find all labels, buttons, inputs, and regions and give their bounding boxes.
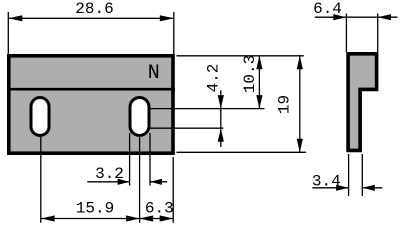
dimension 28.6 arrow right [160,15,174,21]
dimension 19 arrow top [297,56,303,70]
svg-text:19: 19 [276,95,294,114]
side view body profile [348,54,377,151]
dimension 6.4 arrow right [378,14,391,20]
dimension 19 text [276,95,294,114]
slot2 right edge extension [149,133,151,186]
dimension 19 line [299,56,301,153]
svg-text:3.4: 3.4 [312,173,341,191]
svg-text:15.9: 15.9 [76,200,114,218]
slot lower arc-center leader line [148,127,223,129]
dimension 6.4 extension line left [345,14,347,53]
right edge extension downward [172,157,174,223]
dimension 10.3 arrow top [256,56,262,70]
svg-text:6.4: 6.4 [313,0,342,18]
dimension 4.2 text [205,64,223,93]
dimension 4.2 line [220,90,222,147]
dimension 3.2 line left segment [87,181,129,183]
top edge extension line to right [177,55,304,57]
dimension 4.2 arrow lower [218,128,224,142]
slot upper arc-center leader line [148,108,265,110]
dimension 6.3 arrow left [140,215,154,221]
dimension 3.4 arrow left [336,185,349,191]
dimension 6.4 extension line right [377,14,379,53]
svg-text:4.2: 4.2 [205,64,223,93]
dimension 10.3 arrow bottom [256,95,262,109]
dimension 3.4 arrow right [362,185,375,191]
slot hole 1 [31,98,49,136]
dimension 3.4 line left segment [312,187,348,189]
svg-text:6.3: 6.3 [145,200,174,218]
svg-text:28.6: 28.6 [75,0,113,18]
svg-text:N: N [148,62,160,85]
dimension 10.3 line [258,56,260,109]
dimension 15.9 arrow right [126,215,140,221]
dimension 4.2 arrow upper [218,95,224,109]
dimension 6.3 arrow right [160,215,174,221]
dimension 6.4 arrow left [333,14,346,20]
slot2 left edge extension [129,133,131,186]
slot1 centerline extension [40,137,42,223]
dimension 3.4 extension line left [348,154,350,196]
dimension 10.3 text [241,55,259,93]
svg-text:3.2: 3.2 [95,165,124,183]
dimension 19 arrow bottom [297,139,303,153]
bottom edge extension line to right [177,151,307,153]
dimension 28.6 extension line left [7,12,9,54]
dimension 3.2 arrow right [150,179,162,185]
svg-text:10.3: 10.3 [241,55,259,93]
dimension 28.6 arrow left [8,15,22,21]
dimension 3.2 arrow left [118,179,130,185]
dimension 15.9 arrow left [41,215,55,221]
dimension 28.6 extension line right [173,12,175,54]
slot hole 2 [130,98,149,136]
dimension 15.9 and 6.3 line [41,218,173,220]
slot2 centerline extension [139,137,141,223]
dimension 3.4 line right segment [362,187,382,189]
dimension 3.4 extension line right [361,154,363,196]
dimension 28.6 line [8,17,174,19]
marking band separator line [7,88,175,91]
dimension 3.2 line right segment [150,181,167,183]
dimension 6.4 line [315,16,398,18]
front view body plate [9,56,173,153]
